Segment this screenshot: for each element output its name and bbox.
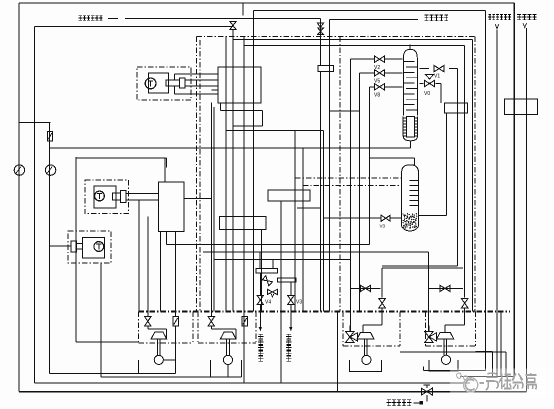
valve V4 liquid nitrogen drain [257, 273, 271, 331]
wire lower column feed [76, 158, 414, 166]
unit U2 box [198, 312, 256, 343]
wire U34 headers [382, 266, 463, 268]
node vent label [387, 400, 424, 406]
wire M2 to subcooler E2 [126, 194, 159, 200]
wire E2 outlet right [184, 198, 212, 200]
wire mid horizontals [19, 103, 428, 342]
node waste nitrogen label [488, 14, 511, 29]
wire condenser outlet [409, 141, 411, 148]
column upper distillation [403, 45, 417, 116]
machine M1 expansion turbine [137, 67, 191, 100]
wire instrument dashdot lines to lower column [295, 178, 402, 185]
node oxygen outlet label [517, 14, 537, 27]
component silencer S1 [445, 103, 468, 113]
component U2 check [242, 317, 248, 326]
machine M2 booster [85, 180, 129, 213]
valve V3b liquid oxygen drain [288, 282, 303, 331]
unit U3 box [343, 312, 400, 346]
valve U2 inlet [208, 256, 236, 339]
valve top nitrogen bowtie [230, 22, 236, 30]
svg-text:V3: V3 [380, 224, 386, 229]
svg-text:V8: V8 [374, 93, 380, 99]
component gauge circle left pipe [45, 165, 55, 175]
svg-text:V0: V0 [424, 91, 430, 97]
unit U4 box [426, 312, 476, 346]
heat exchanger E2 subcooler [159, 182, 184, 232]
wire bottom right nest [400, 312, 506, 378]
wire product gas vent line C [329, 19, 418, 111]
wire bundle column feed verticals [323, 59, 369, 311]
valve U4 riser [445, 299, 468, 333]
valve U3 branch [350, 260, 380, 332]
component gauge circle frame pipe [14, 165, 24, 175]
wire pump2 return loop [101, 365, 242, 377]
valve U4 branch [428, 252, 463, 331]
svg-text:V4: V4 [265, 300, 271, 306]
vessel condenser [403, 116, 417, 140]
unit U1 box [139, 312, 193, 343]
wire top stub [242, 3, 244, 15]
valve U1 inlet [145, 216, 167, 338]
machine M3 compressor [68, 231, 111, 263]
valve U4 angle [425, 326, 437, 343]
svg-text:V3: V3 [296, 300, 302, 306]
component silencer S2 [505, 99, 538, 115]
node cold box boundary [139, 36, 510, 311]
wire oxygen outlet line right [460, 28, 527, 392]
component purge cluster boxes [256, 252, 296, 282]
valve V3 column drain [323, 215, 401, 228]
wire bundle left-center verticals [139, 10, 261, 383]
heat exchanger E1 [218, 67, 261, 103]
node air inlet label [78, 16, 102, 21]
valve V0 relief [420, 75, 442, 103]
heat exchanger E3 [268, 190, 310, 201]
node drain label LOX vertical [286, 334, 291, 361]
valve V8 [370, 84, 403, 99]
valve purge X [262, 276, 277, 297]
valve U3 angle [346, 326, 358, 343]
column lower vessel [402, 165, 419, 231]
component orifice left [48, 132, 53, 141]
wire waste nitrogen top line B [253, 10, 485, 370]
component air line orifice box [318, 65, 334, 71]
node watermark logo [450, 369, 554, 397]
wire inner loop left [35, 27, 471, 383]
node vent gas label [424, 15, 448, 21]
component U4 blower [429, 332, 458, 371]
wire air line down [320, 71, 322, 311]
wire right riser group [233, 40, 472, 312]
wire M1 to exchanger E1 [175, 74, 219, 94]
wire mid-right risers [281, 130, 338, 391]
node drain label LIN vertical [258, 334, 263, 361]
svg-text:V1: V1 [434, 74, 440, 80]
valve V1 [420, 65, 458, 79]
component U1 blower [139, 332, 167, 373]
wire M3 suction stub [50, 245, 72, 247]
valve V2 [350, 56, 402, 71]
component U1 check [173, 232, 179, 326]
component U3 blower [350, 332, 382, 371]
wire left drain pipe [50, 123, 51, 374]
valve V5 [359, 70, 402, 85]
component U2 blower [211, 332, 242, 377]
wire M3 outlet down [100, 263, 102, 377]
wire air inlet line [108, 18, 321, 65]
valve bottom vent [421, 385, 432, 402]
heat exchanger E4 [220, 217, 267, 230]
valve U3 riser [363, 268, 385, 332]
wire pump1 return loop [50, 326, 176, 373]
valve air inlet needle [317, 23, 323, 35]
